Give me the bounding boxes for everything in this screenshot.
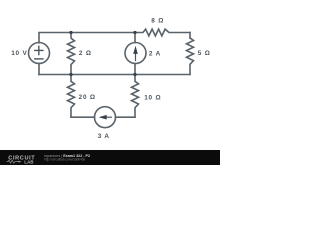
I1 2A arrow head (133, 46, 138, 54)
resistor R2 20ohm (68, 75, 75, 118)
voltage source V1 circle (29, 43, 50, 64)
svg-text:2 Ω: 2 Ω (79, 50, 92, 57)
footer black bar (0, 150, 220, 165)
svg-text:3 A: 3 A (98, 133, 110, 140)
svg-text:8 Ω: 8 Ω (151, 17, 164, 24)
V1 minus sign (35, 58, 43, 60)
current source I1 2A leads (134, 33, 136, 75)
resistor R1 2ohm (68, 33, 75, 75)
svg-text:10 V: 10 V (11, 50, 27, 57)
junction node A top (2ohm top) (69, 31, 72, 34)
wire right branch top lead (189, 33, 191, 38)
wire bottom-left (71, 116, 95, 118)
I2 3A arrow head (99, 115, 107, 120)
I1 arrow shaft (135, 53, 137, 61)
svg-text:20 Ω: 20 Ω (79, 94, 96, 101)
current source I1 2A circle (125, 43, 146, 64)
svg-text:10 Ω: 10 Ω (144, 94, 161, 101)
svg-text:LAB: LAB (24, 160, 34, 165)
wire middle horizontal (39, 74, 190, 76)
current source I2 3A circle (95, 107, 116, 128)
junction node B top (2A top) (133, 31, 136, 34)
wire V1 bottom lead (38, 63, 40, 74)
svg-text:5 Ω: 5 Ω (198, 50, 211, 57)
V1 plus sign (35, 46, 43, 54)
junction node D middle (10ohm top) (133, 73, 136, 76)
svg-text:http://circuitlab.com/c/abb45k: http://circuitlab.com/c/abb45k (44, 158, 86, 162)
I2 arrow shaft (106, 116, 111, 118)
svg-text:2 A: 2 A (149, 50, 161, 57)
resistor R3 5ohm (right branch) (187, 38, 194, 75)
resistor R4 8ohm (top wire) (135, 29, 190, 36)
CircuitLab logo resistor squiggle arrow (7, 160, 20, 163)
junction node C middle (20ohm top) (69, 73, 72, 76)
resistor R5 10ohm (132, 75, 139, 118)
wire bottom-right (116, 116, 136, 118)
wire top-left: V1 top to node A to node B (39, 33, 135, 43)
